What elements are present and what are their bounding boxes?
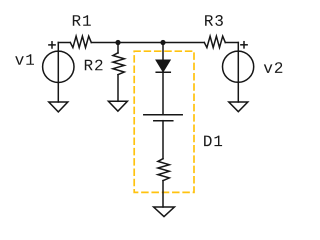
label v2 — [264, 62, 283, 73]
ground of D1 branch — [154, 207, 175, 217]
node A junction dot — [115, 40, 120, 45]
internal resistor of D1 — [158, 159, 169, 181]
battery short plate — [154, 120, 173, 122]
wire R1 to node A — [91, 42, 118, 44]
ground of R2 — [108, 101, 127, 111]
ground of v2 — [229, 102, 248, 112]
wire v1 top corner to R1 — [58, 42, 70, 44]
plus sign of v1 — [49, 42, 55, 48]
wire node B into diode — [162, 43, 164, 61]
wire diode to battery — [162, 71, 164, 114]
resistor R1 — [70, 36, 91, 47]
wire battery to internal resistor — [162, 121, 164, 159]
wire R3 to v2 corner — [225, 42, 238, 44]
resistor R2 — [113, 53, 124, 75]
wire internal resistor to ground — [162, 181, 164, 207]
ground of v1 — [49, 102, 68, 112]
label D1 — [204, 136, 222, 147]
voltage source v2 — [223, 43, 254, 103]
label R1 — [73, 15, 91, 26]
wire node A to R2 — [117, 43, 119, 54]
wire R2 to ground — [117, 75, 119, 102]
resistor R3 — [204, 36, 225, 47]
node B junction dot — [160, 40, 165, 45]
wire node B to R3 — [163, 42, 204, 44]
diode D1 (ideal diode) — [156, 60, 170, 72]
plus sign of v2 — [241, 42, 247, 48]
battery (voltage offset) long plate — [144, 114, 182, 116]
label v1 — [15, 54, 34, 65]
wire node A to node B — [118, 42, 163, 44]
subcircuit box D1 (dashed) — [134, 51, 194, 192]
voltage source v1 — [43, 43, 74, 103]
label R2 — [85, 60, 103, 71]
label R3 — [205, 15, 223, 26]
